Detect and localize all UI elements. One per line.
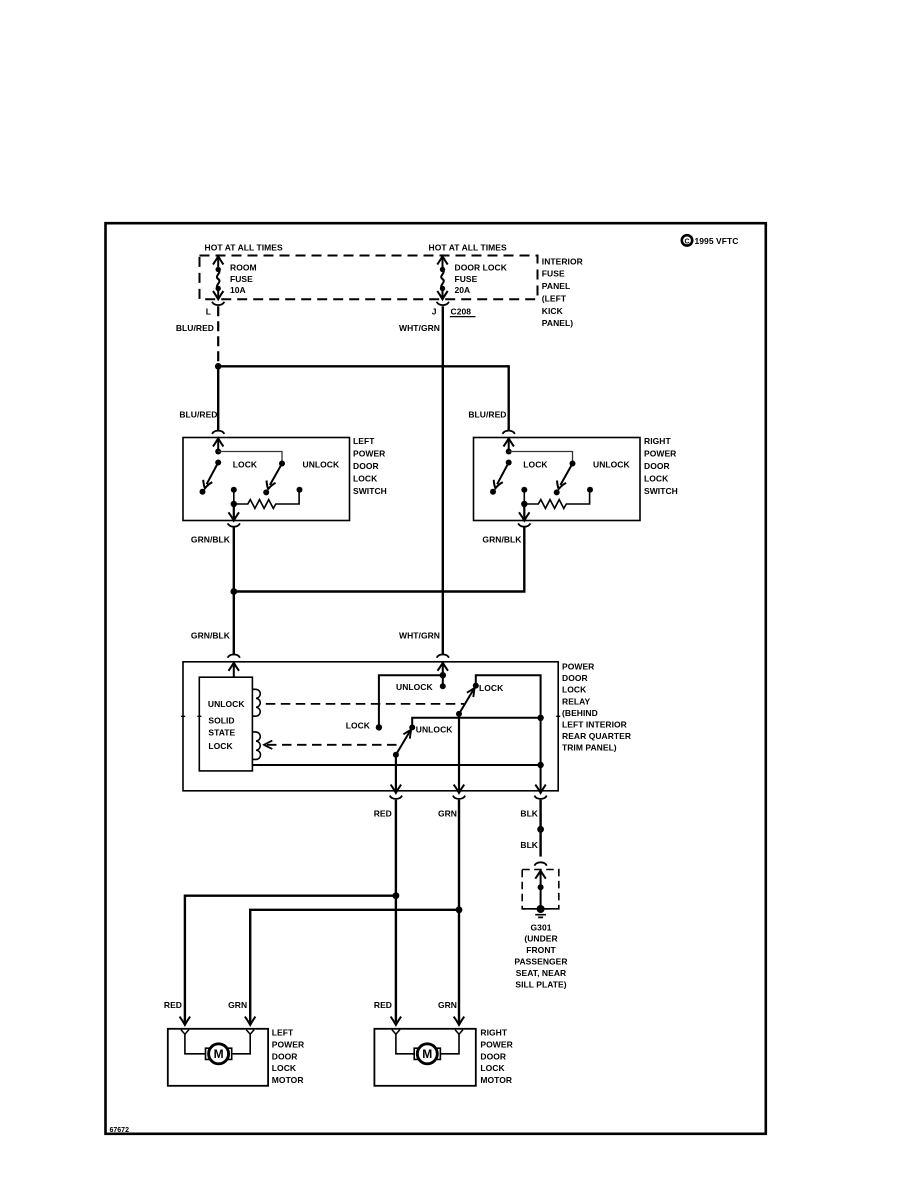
node upper lock contact xyxy=(473,683,479,689)
svg-text:DOOR: DOOR xyxy=(644,461,670,471)
solid state box xyxy=(199,677,252,771)
svg-text:M: M xyxy=(214,1047,224,1061)
svg-text:GRN: GRN xyxy=(228,1000,247,1010)
svg-text:GRN: GRN xyxy=(438,1000,457,1010)
motor entry arrows xyxy=(180,1017,191,1025)
svg-text:1995 VFTC: 1995 VFTC xyxy=(695,236,739,246)
svg-text:M: M xyxy=(422,1047,432,1061)
svg-text:WHT/GRN: WHT/GRN xyxy=(399,323,440,333)
svg-text:LOCK: LOCK xyxy=(644,474,669,484)
svg-text:RED: RED xyxy=(164,1000,182,1010)
svg-text:FUSE: FUSE xyxy=(230,274,253,284)
svg-text:(BEHIND: (BEHIND xyxy=(562,708,598,718)
svg-text:G301: G301 xyxy=(531,922,552,932)
node upper unlock contact xyxy=(440,683,446,689)
connector cup above relay right entry xyxy=(437,654,449,657)
svg-text:SILL PLATE): SILL PLATE) xyxy=(515,979,566,989)
node WHT/GRN feed junction xyxy=(440,672,446,678)
fuse F2 DOOR LOCK FUSE 20A xyxy=(437,256,447,299)
label ROOM FUSE 10A xyxy=(230,262,257,295)
wire RED branch to left motor xyxy=(185,896,396,1025)
svg-text:20A: 20A xyxy=(455,285,471,295)
connector cup above ground box xyxy=(534,862,546,865)
wire feed to lower lock contact xyxy=(379,675,443,727)
svg-text:HOT AT ALL TIMES: HOT AT ALL TIMES xyxy=(429,242,508,252)
label RIGHT POWER DOOR LOCK SWITCH xyxy=(644,436,678,496)
connector pin L cup xyxy=(212,302,224,305)
node RED junction xyxy=(393,892,400,899)
relay right entry arrow xyxy=(438,663,449,676)
connector pin J cup xyxy=(437,302,449,305)
ground entry arrow xyxy=(535,871,546,909)
svg-text:BLK: BLK xyxy=(520,840,538,850)
ground symbol bars xyxy=(535,915,546,918)
svg-text:POWER: POWER xyxy=(353,449,385,459)
node BLK rail upper junction xyxy=(537,715,543,721)
svg-text:LOCK: LOCK xyxy=(479,683,504,693)
svg-text:J: J xyxy=(432,307,437,317)
svg-text:REAR QUARTER: REAR QUARTER xyxy=(562,731,631,741)
svg-text:LEFT: LEFT xyxy=(272,1028,294,1038)
wire RED distribution xyxy=(395,800,397,1025)
svg-text:BLU/RED: BLU/RED xyxy=(468,409,506,419)
svg-text:LEFT INTERIOR: LEFT INTERIOR xyxy=(562,720,627,730)
connector cups below relay xyxy=(390,796,402,799)
svg-text:LOCK: LOCK xyxy=(346,720,371,730)
ground G301 dashed box xyxy=(522,870,559,909)
node BLU/RED junction xyxy=(215,363,222,370)
wire feed to upper unlock contact xyxy=(442,675,444,686)
node BLK splice xyxy=(537,826,544,833)
tick marks on relay edges xyxy=(181,715,560,717)
wire GRN/BLK from right switch joining left xyxy=(234,527,525,591)
label POWER DOOR LOCK RELAY (BEHIND LEFT INTERIOR REAR QUARTER TRIM PANEL) xyxy=(562,662,631,753)
svg-text:BLU/RED: BLU/RED xyxy=(176,323,214,333)
label LEFT POWER DOOR LOCK SWITCH xyxy=(353,436,387,496)
svg-text:ROOM: ROOM xyxy=(230,262,257,272)
relay left entry arrow xyxy=(229,663,240,678)
copyright logo 1995 VFTC xyxy=(682,235,739,246)
node unlock pivot xyxy=(279,461,285,467)
svg-text:KICK: KICK xyxy=(542,306,564,316)
svg-text:POWER: POWER xyxy=(272,1039,304,1049)
left power door lock motor box xyxy=(168,1029,268,1086)
exit arrow xyxy=(233,504,235,520)
left power door lock switch box xyxy=(183,431,350,527)
svg-text:RED: RED xyxy=(374,808,392,818)
label LEFT POWER DOOR LOCK MOTOR xyxy=(272,1028,304,1086)
svg-text:TRIM PANEL): TRIM PANEL) xyxy=(562,743,617,753)
svg-text:UNLOCK: UNLOCK xyxy=(416,724,453,734)
svg-text:(LEFT: (LEFT xyxy=(542,294,567,304)
wire GRN distribution xyxy=(458,800,460,1025)
svg-text:PASSENGER: PASSENGER xyxy=(514,957,567,967)
svg-text:RED: RED xyxy=(374,1000,392,1010)
wire BLU/RED branch to right switch xyxy=(218,366,509,430)
svg-text:LEFT: LEFT xyxy=(353,436,375,446)
node switch feed xyxy=(215,449,221,455)
svg-text:DOOR: DOOR xyxy=(353,461,379,471)
node ground splice xyxy=(538,884,544,890)
svg-text:INTERIOR: INTERIOR xyxy=(542,256,583,266)
svg-text:BLK: BLK xyxy=(520,808,538,818)
wire BLU/RED down to left switch xyxy=(217,366,219,430)
dashed actuator line (unlock coil) xyxy=(266,703,464,705)
lock blade xyxy=(207,463,219,485)
relay coil (lock) xyxy=(252,732,260,759)
power door lock relay box xyxy=(183,662,558,791)
svg-text:RIGHT: RIGHT xyxy=(644,436,671,446)
wire GRN branch to left motor xyxy=(250,910,459,1025)
svg-text:C208: C208 xyxy=(451,307,472,317)
connector cup above relay left entry xyxy=(228,654,240,657)
svg-text:WHT/GRN: WHT/GRN xyxy=(399,630,440,640)
unlock blade xyxy=(270,464,282,486)
lower relay blade xyxy=(393,752,399,758)
entry arrow xyxy=(213,438,223,446)
svg-text:LOCK: LOCK xyxy=(353,474,378,484)
svg-text:BLU/RED: BLU/RED xyxy=(179,409,217,419)
svg-text:LOCK: LOCK xyxy=(233,460,258,470)
wire WHT/GRN main vertical xyxy=(442,306,444,655)
svg-text:SWITCH: SWITCH xyxy=(353,486,387,496)
label UNLOCK SOLID STATE LOCK xyxy=(208,699,245,751)
svg-text:GRN: GRN xyxy=(438,808,457,818)
svg-text:GRN/BLK: GRN/BLK xyxy=(191,630,231,640)
node lock pivot xyxy=(215,460,221,466)
wire BLK to ground xyxy=(539,800,541,857)
label INTERIOR FUSE PANEL (LEFT KICK PANEL) xyxy=(542,256,583,328)
relay exit arrows xyxy=(391,785,402,793)
svg-text:UNLOCK: UNLOCK xyxy=(396,682,433,692)
label RIGHT POWER DOOR LOCK MOTOR xyxy=(480,1028,512,1086)
motor M circle xyxy=(209,1044,229,1064)
svg-text:(UNDER: (UNDER xyxy=(524,934,557,944)
svg-text:LOCK: LOCK xyxy=(562,685,587,695)
resistor inside switch xyxy=(233,490,235,504)
svg-text:MOTOR: MOTOR xyxy=(480,1075,512,1085)
svg-text:DOOR LOCK: DOOR LOCK xyxy=(455,262,508,272)
svg-text:LOCK: LOCK xyxy=(272,1063,297,1073)
wire GRN/BLK from left switch xyxy=(233,527,235,591)
svg-text:DOOR: DOOR xyxy=(562,673,588,683)
contact dots xyxy=(200,489,206,495)
wire solid state to BLK rail xyxy=(252,764,540,766)
svg-text:DOOR: DOOR xyxy=(272,1051,298,1061)
svg-text:SEAT, NEAR: SEAT, NEAR xyxy=(516,968,566,978)
svg-text:RIGHT: RIGHT xyxy=(480,1028,507,1038)
svg-text:GRN/BLK: GRN/BLK xyxy=(191,535,231,545)
fuse F1 ROOM FUSE 10A xyxy=(213,256,223,299)
svg-text:10A: 10A xyxy=(230,285,246,295)
svg-text:67672: 67672 xyxy=(110,1127,130,1134)
svg-text:C: C xyxy=(684,238,689,245)
ground terminal dot xyxy=(537,905,545,913)
svg-text:FUSE: FUSE xyxy=(455,274,478,284)
svg-text:PANEL): PANEL) xyxy=(542,318,573,328)
wire jog to unlock contact xyxy=(218,452,282,464)
svg-text:POWER: POWER xyxy=(562,662,594,672)
dashed actuator line (lock coil) with arrow xyxy=(267,744,398,746)
svg-text:RELAY: RELAY xyxy=(562,696,591,706)
wire upper lock contact to BLK rail xyxy=(476,675,541,791)
node GRN/BLK junction xyxy=(230,588,237,595)
right power door lock motor box xyxy=(374,1029,475,1086)
wire GRN/BLK to relay xyxy=(233,592,235,656)
svg-text:SWITCH: SWITCH xyxy=(644,486,678,496)
svg-text:LOCK: LOCK xyxy=(208,741,233,751)
upper relay blade xyxy=(456,711,462,717)
connector cup above switch xyxy=(212,431,224,434)
svg-text:FUSE: FUSE xyxy=(542,269,565,279)
svg-text:GRN/BLK: GRN/BLK xyxy=(482,535,522,545)
svg-text:SOLID: SOLID xyxy=(208,716,234,726)
svg-text:MOTOR: MOTOR xyxy=(272,1075,304,1085)
connector cup below switch xyxy=(228,523,240,526)
svg-text:PANEL: PANEL xyxy=(542,281,570,291)
svg-text:L: L xyxy=(206,307,211,317)
svg-text:UNLOCK: UNLOCK xyxy=(208,699,245,709)
node GRN junction xyxy=(456,906,463,913)
svg-text:DOOR: DOOR xyxy=(480,1051,506,1061)
svg-text:LOCK: LOCK xyxy=(480,1063,505,1073)
svg-text:UNLOCK: UNLOCK xyxy=(303,460,340,470)
svg-text:POWER: POWER xyxy=(480,1039,512,1049)
interior fuse panel dashed box xyxy=(200,256,538,300)
border frame xyxy=(106,223,766,1134)
motor M circle xyxy=(417,1044,437,1064)
wire BLU/RED dashed from fuse xyxy=(217,306,219,366)
node lower unlock contact xyxy=(409,724,415,730)
svg-text:HOT AT ALL TIMES: HOT AT ALL TIMES xyxy=(205,242,284,252)
wire GRN from upper blade xyxy=(458,714,460,792)
svg-text:STATE: STATE xyxy=(208,727,235,737)
label DOOR LOCK FUSE 20A xyxy=(455,262,508,295)
svg-text:POWER: POWER xyxy=(644,449,676,459)
right power door lock switch box (mirror copy) xyxy=(474,431,641,527)
relay coil (unlock) xyxy=(252,689,260,716)
node lower lock contact xyxy=(376,724,382,730)
wire RED from lower blade xyxy=(395,755,397,792)
wire lower unlock contact to BLK rail xyxy=(412,718,540,728)
svg-text:FRONT: FRONT xyxy=(526,945,556,955)
label G301 (UNDER FRONT PASSENGER SEAT, NEAR SILL PLATE) xyxy=(514,922,567,989)
node BLK rail lower junction xyxy=(537,762,543,768)
